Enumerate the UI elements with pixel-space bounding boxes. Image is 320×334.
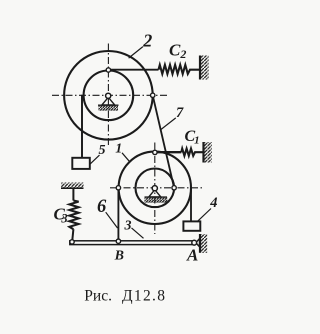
wire: cord from pulley 2 inner left down to weight 5 — [81, 95, 83, 158]
wire: link spring C3 to bar — [72, 229, 73, 240]
svg-text:2: 2 — [142, 31, 152, 51]
node at bar left end (C3 attachment) — [70, 240, 74, 244]
wall anchor of C2 — [200, 56, 209, 80]
node at pulley 2 outer right (cord 7) — [151, 93, 155, 97]
wire: cord 6 from pulley 1 left rim down to bar at B — [117, 188, 119, 241]
label 3 with leader — [132, 228, 144, 238]
label 2 with leader — [129, 47, 143, 59]
node B — [116, 239, 120, 243]
svg-text:3: 3 — [124, 219, 132, 234]
svg-text:C2: C2 — [169, 41, 186, 62]
wire: cord 7 from pulley 2 rim to pulley 1 inner rim — [153, 95, 174, 188]
svg-text:1: 1 — [115, 142, 122, 157]
pulley 1 outer circle — [119, 152, 191, 224]
svg-text:5: 5 — [99, 143, 106, 158]
label 4 with leader — [197, 209, 211, 222]
pivot support at A — [192, 234, 207, 253]
spring C3 — [69, 201, 78, 230]
svg-text:6: 6 — [97, 197, 107, 217]
svg-text:B: B — [114, 248, 124, 263]
pulley 2 inner circle — [84, 71, 134, 121]
node at pulley 1 inner right (cord 7 end) — [172, 186, 176, 190]
pivot support at pulley 1 center — [145, 186, 168, 203]
svg-text:C3: C3 — [54, 205, 68, 226]
wire: cord from pulley 1 top to spring C1 — [155, 151, 182, 153]
pulley 1 inner circle — [136, 169, 175, 208]
node at pulley 1 outer left (cord 6) — [116, 186, 120, 190]
node at pulley 1 outer top (C1 cord) — [153, 150, 157, 154]
svg-text:7: 7 — [176, 105, 184, 121]
pulley 1 (small) center lines (dash-dot) — [110, 143, 203, 235]
wire: cord from pulley 1 right rim down to weight 4 — [190, 188, 192, 222]
weight 4 — [183, 221, 200, 230]
svg-text:Рис.Д12.8: Рис.Д12.8 — [84, 287, 165, 304]
pulley 2 outer circle — [64, 51, 153, 140]
wire: link ceiling to spring C3 — [72, 188, 74, 200]
spring C2 — [159, 65, 201, 74]
node at pulley 2 inner top (C2 cord) — [106, 68, 110, 72]
wire: cord from pulley 2 inner top to spring C2 — [108, 69, 158, 71]
bar 3 (rod AB) — [70, 241, 194, 245]
label 6 with leader — [106, 212, 118, 228]
pulley 2 center lines (dash-dot) — [52, 44, 167, 146]
label 1 with leader — [122, 153, 129, 162]
spring C1 — [181, 149, 203, 156]
weight 5 — [72, 158, 90, 169]
svg-text:A: A — [186, 246, 198, 265]
label 7 with leader — [161, 118, 176, 130]
svg-text:4: 4 — [209, 195, 217, 211]
svg-text:C1: C1 — [185, 128, 200, 147]
label 5 with leader — [90, 155, 100, 164]
wall anchor of C1 — [204, 142, 212, 163]
pivot support at pulley 2 center — [98, 93, 119, 111]
ceiling anchor of C3 — [61, 183, 84, 189]
